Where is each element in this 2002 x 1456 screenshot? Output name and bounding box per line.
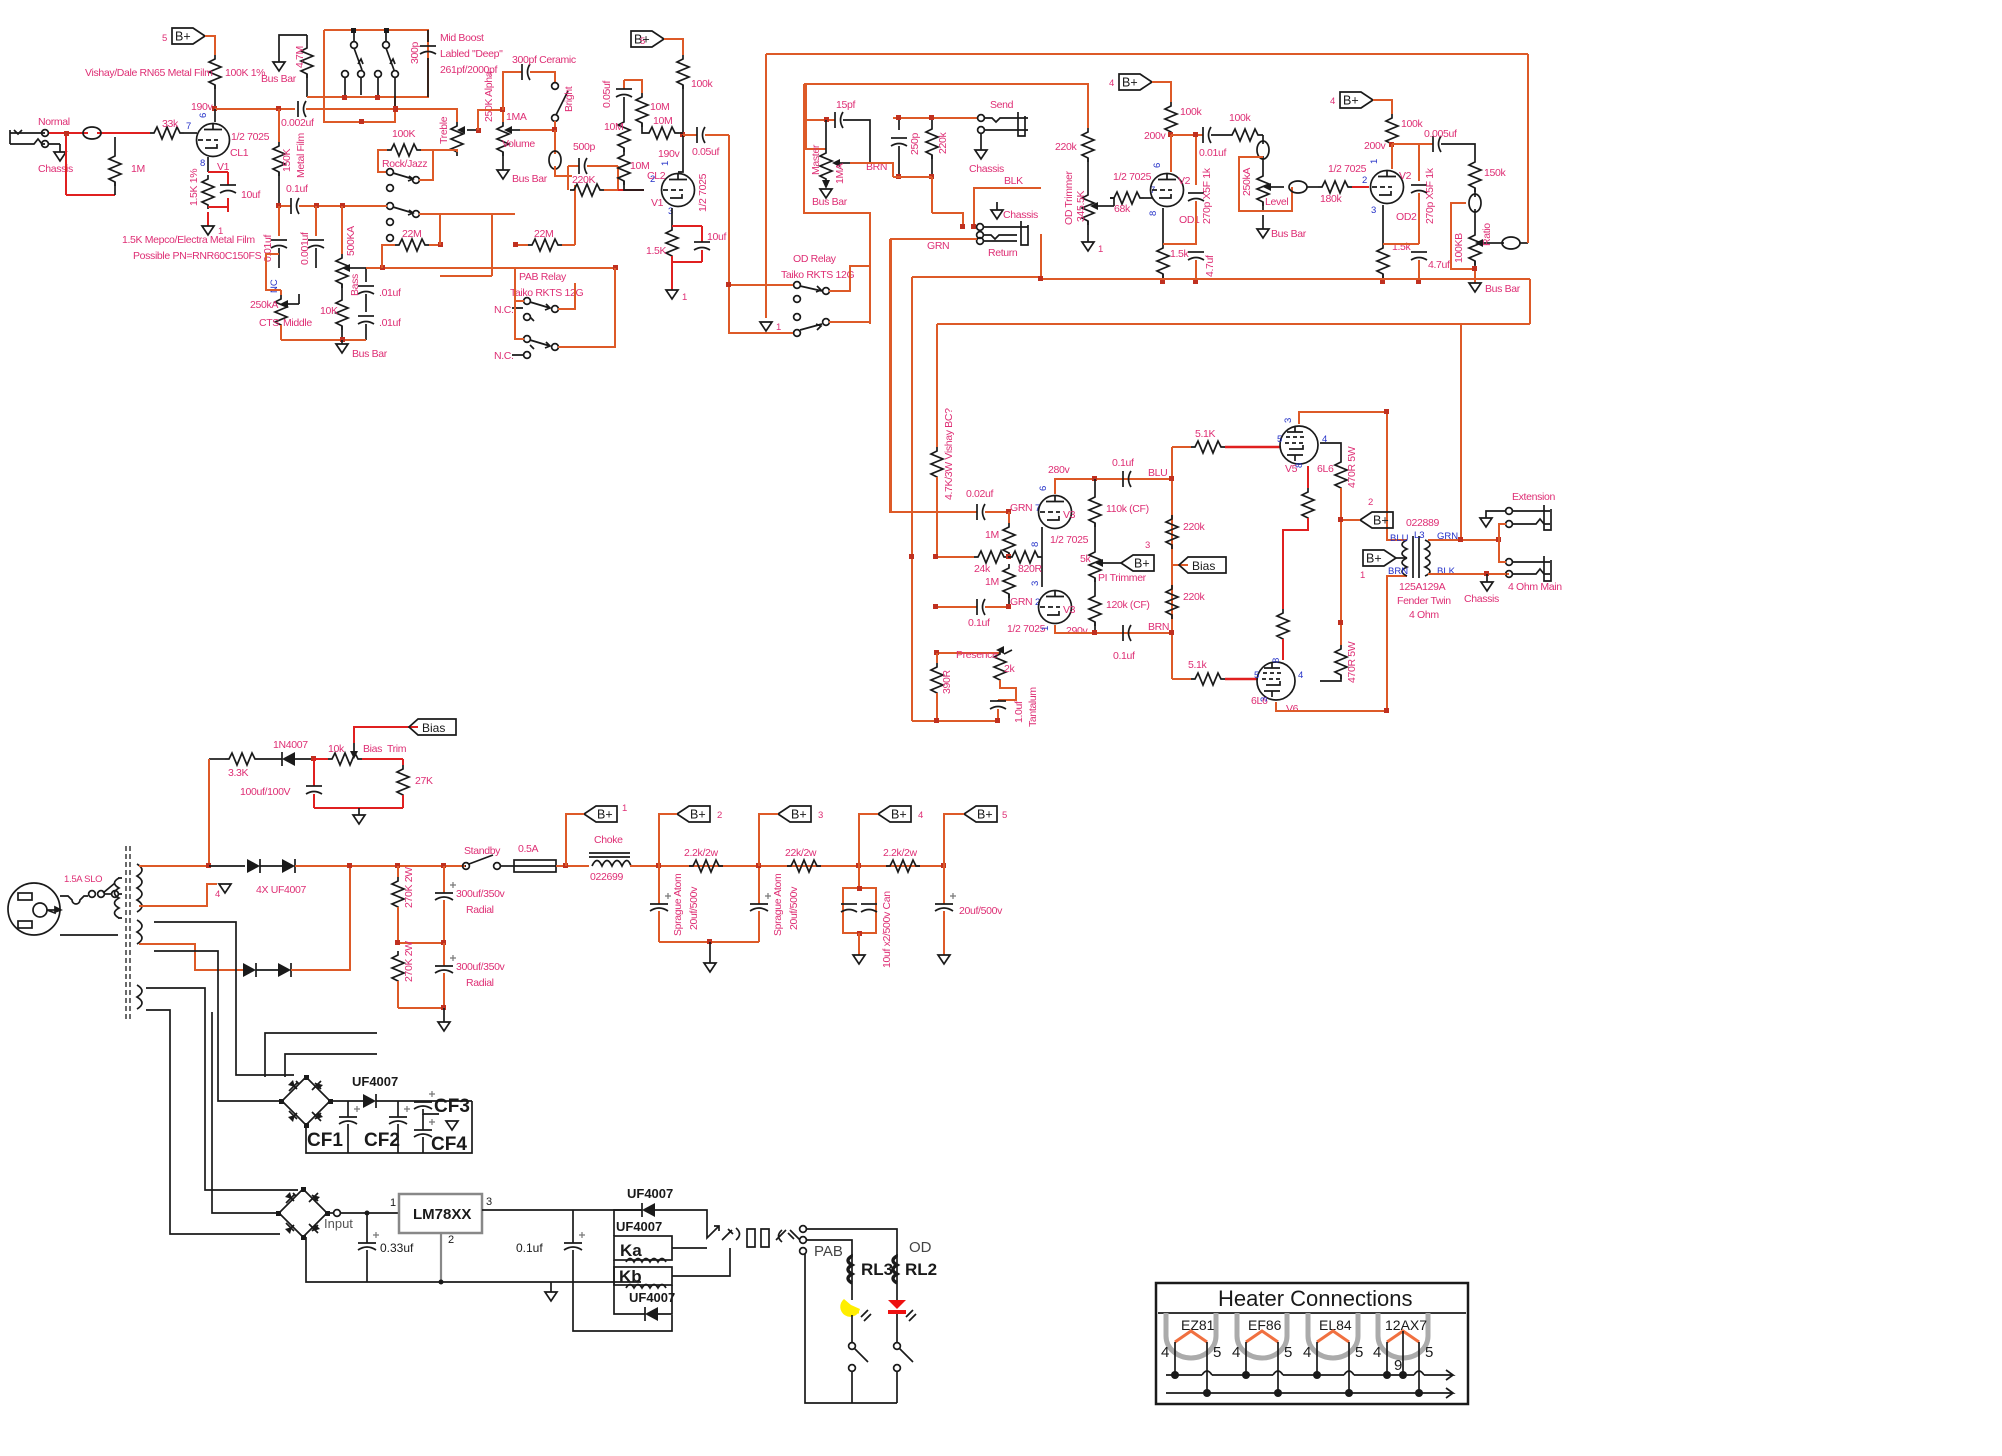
wire B+ to 100k	[664, 39, 683, 55]
pot VR Volume 1MA	[497, 110, 520, 170]
wire footswitch common rail	[805, 1254, 897, 1403]
LED red OD	[888, 1283, 916, 1342]
junction presence row	[934, 650, 939, 655]
ground OD trimmer	[1082, 242, 1094, 251]
svg-text:4.7uf: 4.7uf	[1428, 259, 1450, 271]
junction y282 rail	[1038, 276, 1043, 281]
junction CL2 plate node	[680, 132, 685, 137]
wire 0.02uf feed from GRN	[890, 239, 892, 512]
svg-text:1: 1	[1369, 159, 1380, 164]
wire OD relay pole wires	[729, 285, 793, 333]
junction send row	[896, 115, 901, 120]
svg-text:0.005uf: 0.005uf	[1424, 128, 1457, 140]
svg-text:300pf Ceramic: 300pf Ceramic	[512, 54, 576, 66]
svg-text:2.2k/2w: 2.2k/2w	[883, 847, 918, 859]
svg-text:1: 1	[1360, 570, 1365, 581]
svg-text:820R: 820R	[1018, 563, 1042, 575]
pot VR PI Trimmer 5k	[1089, 548, 1119, 582]
cap C 0.1uf BLU	[1123, 471, 1172, 487]
wire rock/jazz lower pole row (mid signal)	[279, 205, 291, 207]
resistor R 1.5K 1% cathode	[202, 175, 214, 209]
wire send bottom row	[893, 177, 932, 213]
resistor R 2.2k/2w a	[689, 860, 723, 872]
wire heater winding b to bridge1	[154, 951, 282, 1101]
wire OD1 cathode loop	[1163, 244, 1196, 245]
svg-text:CF4: CF4	[431, 1134, 467, 1155]
junction OD2 bottom	[1380, 279, 1385, 284]
svg-text:1M: 1M	[985, 576, 999, 588]
pot VR Ratio 100KB	[1469, 231, 1496, 269]
cap C .01uf bass lower	[358, 316, 374, 340]
svg-text:8: 8	[1148, 211, 1159, 216]
svg-text:UF4007: UF4007	[616, 1219, 662, 1234]
wire 22M B right to OD send net	[574, 185, 576, 245]
junction HV bias tap	[206, 863, 211, 868]
wire B+3	[759, 814, 778, 866]
wire HV top to diodes	[139, 865, 209, 867]
svg-text:4: 4	[1161, 1344, 1169, 1361]
bridge rectifier input bridge	[276, 1187, 330, 1240]
resistor R 22M anti-pop B	[515, 239, 575, 251]
cap C 0.1uf tone	[291, 198, 299, 214]
cap C 10uf CL2	[694, 226, 710, 262]
pins EF86	[1242, 1342, 1282, 1397]
junction GRN jack node	[1496, 537, 1501, 542]
fuse F 0.5A	[514, 860, 556, 872]
svg-text:5.1k: 5.1k	[1188, 659, 1208, 671]
cap C CF1	[339, 1101, 360, 1153]
junction BLU node	[1169, 476, 1174, 481]
cap C 4.7uf OD1	[1188, 252, 1204, 282]
svg-text:280v: 280v	[1048, 464, 1070, 476]
ground 20uf	[938, 955, 950, 964]
svg-text:0.1uf: 0.1uf	[1112, 457, 1134, 469]
svg-text:OD2: OD2	[1396, 211, 1417, 223]
wire presence bottom to 1.0uf	[998, 680, 1016, 700]
heater filament EF86	[1246, 1331, 1278, 1342]
svg-text:3: 3	[818, 810, 823, 821]
cap C 270p OD2	[1411, 144, 1427, 244]
ground bus bar V1 cathode	[202, 226, 214, 235]
junction B+4	[856, 863, 861, 868]
resistor R 150k	[1469, 158, 1481, 192]
wire bridge1 out	[330, 1100, 363, 1102]
svg-text:220K: 220K	[572, 174, 595, 186]
svg-text:Presence: Presence	[956, 649, 998, 661]
B+ flag 5 (V1 plate)	[172, 28, 205, 44]
svg-text:Vishay/Dale RN65 Metal Film: Vishay/Dale RN65 Metal Film	[85, 67, 213, 79]
tube socket EF86	[1237, 1313, 1287, 1358]
svg-text:4.7M: 4.7M	[294, 46, 306, 68]
svg-text:1: 1	[660, 161, 671, 166]
relay RL PAB switch 1	[512, 298, 558, 321]
resistor R 33k grid stopper	[150, 127, 184, 139]
svg-text:Bus Bar: Bus Bar	[512, 173, 548, 185]
junction plate node	[212, 106, 217, 111]
svg-text:345.5K: 345.5K	[1075, 190, 1087, 222]
svg-text:8: 8	[1271, 658, 1282, 663]
pot VR OD Trimmer 345.5K	[1082, 158, 1114, 242]
ground filter a	[704, 942, 716, 972]
junction bias node	[311, 756, 316, 761]
wire opto to RL3	[806, 1240, 852, 1257]
junction 24k/1M node	[1006, 554, 1011, 559]
svg-text:Mid Boost: Mid Boost	[440, 32, 484, 44]
svg-text:0.05uf: 0.05uf	[601, 80, 613, 108]
junction ratio bottom	[1472, 266, 1477, 271]
chassis ground return	[991, 202, 1003, 219]
svg-text:4: 4	[1232, 1344, 1240, 1361]
junction 515,245	[513, 242, 518, 247]
svg-text:BLU: BLU	[1390, 533, 1409, 544]
ground PSU chain	[438, 1008, 450, 1031]
resistor R V5 screen feed 470R 5W	[1320, 443, 1347, 645]
connector bubble ratio out	[1496, 237, 1528, 249]
junction 912,557	[909, 554, 914, 559]
wire master wiper row to send	[850, 163, 893, 177]
svg-text:1: 1	[622, 803, 627, 814]
wire HV center tap	[139, 884, 217, 906]
wire volume wiper to bright bottom	[520, 121, 555, 130]
wire B+2	[659, 814, 677, 866]
svg-text:Middle: Middle	[283, 317, 312, 329]
svg-text:100K: 100K	[392, 128, 415, 140]
svg-text:.01uf: .01uf	[379, 287, 401, 299]
cap C 0.1uf reg	[564, 1210, 585, 1282]
svg-text:100k: 100k	[691, 78, 713, 90]
wire OD2 plate to 0.005uf	[1392, 143, 1433, 145]
junction 382,268	[380, 265, 385, 270]
svg-text:BRN: BRN	[1388, 566, 1408, 577]
svg-text:Possible PN=RNR60C150FS: Possible PN=RNR60C150FS	[133, 250, 262, 262]
svg-text:Extension: Extension	[1512, 491, 1555, 503]
svg-text:2: 2	[1368, 497, 1373, 508]
wire extension sleeve to GRN	[1499, 524, 1506, 540]
svg-text:68k: 68k	[1114, 203, 1131, 215]
junction 300uf top	[441, 863, 446, 868]
wire bias feed down to HV wire	[208, 759, 210, 868]
cap C 1.0uf Tantalum	[990, 700, 1006, 721]
svg-text:Input: Input	[324, 1216, 353, 1231]
wire PAB relay throw 2 to mid row	[558, 268, 615, 347]
svg-text:110k (CF): 110k (CF)	[1106, 503, 1149, 515]
relay coil box Ka	[614, 1236, 672, 1262]
svg-text:3: 3	[1371, 205, 1376, 216]
svg-text:220k: 220k	[1183, 521, 1205, 533]
junction V3a grid	[1006, 509, 1011, 514]
level loop box	[1239, 157, 1292, 211]
cap C 0.01uf	[271, 206, 287, 268]
wire bottom common rail y282	[912, 277, 1530, 721]
wire 180k to OD2 grid	[1352, 186, 1369, 188]
svg-text:100k: 100k	[1180, 106, 1202, 118]
resistor R 10M a	[636, 93, 648, 127]
svg-text:0.1uf: 0.1uf	[968, 617, 990, 629]
wire B+5	[944, 814, 964, 866]
connector bubble ratio in	[1469, 188, 1481, 231]
jack J Send	[978, 112, 1028, 136]
svg-text:LM78XX: LM78XX	[413, 1206, 471, 1223]
svg-text:6: 6	[1152, 163, 1163, 168]
wire fuse to choke	[556, 865, 589, 867]
wire 0.05uf down to OD relay	[728, 135, 730, 285]
junction 555,130	[552, 127, 557, 132]
diode D UF4007 d	[256, 866, 350, 977]
resistor R 150K metal film	[273, 109, 285, 206]
junction 936,607	[933, 604, 938, 609]
resistor R 270K 2W lower	[392, 951, 404, 1008]
svg-text:150K: 150K	[281, 149, 293, 172]
junction 936,557	[933, 554, 938, 559]
svg-text:Choke: Choke	[594, 834, 623, 846]
svg-text:1/2 7025: 1/2 7025	[1050, 534, 1089, 546]
svg-text:3: 3	[1259, 697, 1270, 702]
wire 33k to V1 grid	[184, 132, 197, 134]
svg-text:Bus Bar: Bus Bar	[812, 196, 848, 208]
heater filament EL84	[1317, 1331, 1349, 1342]
svg-text:300uf/350v: 300uf/350v	[456, 888, 506, 900]
ground bias	[353, 808, 365, 824]
svg-text:100uf/100V: 100uf/100V	[240, 786, 291, 798]
cap C 0.005uf	[1433, 136, 1475, 158]
bridge rectifier CF bridge	[279, 1075, 333, 1128]
svg-text:6: 6	[198, 113, 209, 118]
svg-text:V6: V6	[1286, 703, 1299, 715]
wire heater AC stub upper	[265, 1033, 377, 1077]
wire BLK out	[1428, 573, 1509, 575]
resistor R 100K tone	[387, 144, 421, 156]
junction 270K top	[395, 863, 400, 868]
svg-text:5: 5	[1254, 670, 1259, 681]
junction	[1193, 132, 1198, 137]
cap C 0.001uf	[308, 206, 324, 268]
wire treble bottom to 100K	[421, 150, 457, 152]
wire B+5 to 100K plate resistor	[205, 36, 215, 55]
wire ratio out up rail	[1527, 242, 1529, 243]
diode D UF4007 e	[642, 1203, 707, 1230]
diode D UF4007 c	[243, 963, 256, 977]
wire HV bottom to diodes	[139, 944, 243, 970]
wire V3a plate up	[1055, 479, 1085, 494]
svg-text:180k: 180k	[1320, 193, 1342, 205]
pot VR Presence 2k	[937, 646, 1012, 684]
svg-text:Labled "Deep": Labled "Deep"	[440, 48, 503, 60]
pins 12AX7	[1383, 1331, 1423, 1397]
wire PAB relay common 1 to bass net	[515, 268, 524, 301]
svg-text:Sprague Atom: Sprague Atom	[772, 873, 784, 936]
cap C 0.002uf coupling	[298, 101, 306, 117]
ground CL2 cathode	[666, 290, 678, 299]
svg-text:Taiko RKTS 12G: Taiko RKTS 12G	[781, 269, 854, 281]
junction bottom	[441, 1005, 446, 1010]
wire B+4 to 100k	[1152, 82, 1171, 102]
svg-text:10M: 10M	[630, 160, 649, 172]
svg-text:V2: V2	[1399, 170, 1412, 182]
svg-text:4X UF4007: 4X UF4007	[256, 884, 306, 896]
svg-text:10k: 10k	[328, 743, 345, 755]
ground reg	[545, 1282, 557, 1301]
junction bass bottom	[340, 337, 345, 342]
svg-text:GRN: GRN	[927, 240, 949, 252]
junction at 395,109	[393, 106, 398, 111]
wire middle pot top loop	[266, 254, 281, 290]
resistor R 2.2k/2w b	[886, 860, 920, 872]
resistor R 270K 2W upper	[392, 866, 404, 943]
tube socket EZ81	[1166, 1313, 1216, 1358]
svg-text:OD Relay: OD Relay	[793, 253, 837, 265]
resistor R 22M anti-pop A	[382, 239, 440, 268]
wire 22M A to PAB switch net	[440, 214, 515, 276]
svg-text:5: 5	[1284, 1344, 1292, 1361]
junction 280v/110k	[1092, 476, 1097, 481]
svg-text:Treble: Treble	[438, 116, 450, 144]
cap C 10uf cathode bypass	[220, 172, 236, 212]
svg-text:100k: 100k	[1229, 112, 1251, 124]
resistor R 220k OD trimmer top	[1082, 128, 1094, 162]
svg-text:1.5A SLO: 1.5A SLO	[64, 874, 102, 885]
choke L 022699	[589, 853, 631, 866]
junction BLK	[971, 224, 976, 229]
chassis ground OT	[1481, 574, 1493, 591]
wire OD sw2 throw right	[804, 84, 870, 322]
bright cap C 0.05uf 10M chain	[616, 80, 632, 118]
svg-text:OD: OD	[909, 1239, 932, 1256]
svg-text:1: 1	[390, 1197, 396, 1209]
svg-text:1M: 1M	[985, 529, 999, 541]
cap C 0.01uf	[1203, 127, 1228, 143]
B+ flag 2	[1360, 512, 1393, 528]
switch SW Bright	[552, 83, 568, 122]
svg-text:Bias: Bias	[1192, 559, 1215, 573]
wire regulator return loop	[573, 1282, 672, 1331]
svg-text:190v: 190v	[191, 101, 213, 113]
cap C 300uf/350v upper	[435, 866, 456, 943]
wire output to diode net	[573, 1209, 642, 1211]
ground center tap	[219, 884, 231, 893]
svg-text:3: 3	[1283, 418, 1294, 423]
Bias flag out	[409, 719, 456, 735]
svg-text:27K: 27K	[415, 775, 433, 787]
junction 440,245	[438, 242, 443, 247]
wire BLK net	[932, 188, 1041, 227]
heater bus 1	[1166, 1370, 1453, 1380]
svg-text:BLU: BLU	[1148, 467, 1167, 479]
wire B+4	[859, 814, 878, 866]
B+ flag 1	[584, 806, 617, 822]
svg-text:GRN: GRN	[1010, 596, 1032, 608]
pins EL84	[1313, 1342, 1353, 1397]
wire rock/jazz lower throw to PAB net	[419, 213, 492, 215]
Bias flag	[1172, 557, 1226, 573]
wire main jack sleeve to BLK	[1503, 573, 1506, 575]
svg-text:Tantalum: Tantalum	[1027, 687, 1039, 727]
svg-text:Ka: Ka	[620, 1241, 642, 1260]
svg-text:22M: 22M	[534, 228, 553, 240]
diode D UF4007 a	[247, 859, 260, 873]
wire OD2 cathode loop	[1383, 243, 1419, 245]
cap C Sprague Atom 20uf b	[750, 866, 771, 942]
svg-text:1: 1	[1098, 244, 1103, 255]
svg-text:Standby: Standby	[464, 845, 501, 857]
resistor R 68k	[1110, 192, 1153, 206]
svg-text:290v: 290v	[1066, 625, 1088, 637]
relay RL OD switch 2	[794, 314, 830, 337]
tube V3 lower 1/2 7025	[1039, 591, 1072, 624]
svg-text:Sprague Atom: Sprague Atom	[672, 873, 684, 936]
svg-text:N.C.: N.C.	[494, 350, 514, 362]
wire plate node into tube	[678, 135, 683, 172]
ground ratio	[1469, 269, 1481, 292]
svg-text:Taiko RKTS 12G: Taiko RKTS 12G	[510, 287, 583, 299]
junction B+5	[941, 863, 946, 868]
loop box 500p/220K	[555, 166, 618, 190]
tube V1 CL1 1/2 7025	[197, 124, 230, 157]
svg-text:0.5A: 0.5A	[518, 843, 539, 855]
ground level	[1257, 215, 1269, 238]
opto output circles	[800, 1226, 807, 1255]
junction B+3	[756, 863, 761, 868]
svg-text:Return: Return	[988, 247, 1018, 259]
svg-text:2: 2	[717, 810, 722, 821]
svg-text:1/2 7025: 1/2 7025	[697, 173, 709, 212]
svg-text:4.7uf: 4.7uf	[1204, 255, 1216, 277]
svg-text:Heater Connections: Heater Connections	[1218, 1286, 1412, 1311]
ground bus bar bass	[336, 340, 348, 353]
svg-text:Bus Bar: Bus Bar	[1271, 228, 1307, 240]
svg-text:5: 5	[1002, 810, 1007, 821]
wire main jack tip	[1499, 540, 1506, 562]
can cap C 10uf x2/500v	[841, 866, 877, 955]
resistor R 1.5k OD2 cathode	[1377, 205, 1389, 282]
svg-text:10M: 10M	[650, 101, 669, 113]
wire PAB relay common 2	[515, 276, 524, 339]
transformer low winding	[137, 985, 142, 1009]
pot VR 250kA CTS Middle	[275, 290, 299, 340]
cap C 300uf/350v lower	[435, 943, 456, 1008]
svg-text:10K: 10K	[320, 305, 338, 317]
ground extension	[1480, 511, 1506, 527]
tube V1 CL2 1/2 7025	[662, 174, 695, 207]
svg-text:33k: 33k	[162, 118, 179, 130]
ground bus bar near 4.7M	[273, 35, 307, 71]
cap C 4.7uf OD2	[1411, 252, 1427, 282]
Mid Boost relay box	[307, 30, 428, 122]
svg-text:22k/2w: 22k/2w	[785, 847, 817, 859]
resistor R 220k upper	[1166, 515, 1178, 549]
svg-text:2k: 2k	[1004, 663, 1015, 675]
svg-text:20uf/500v: 20uf/500v	[788, 886, 800, 930]
transformer T power core	[126, 846, 130, 1021]
junction OD relay in	[726, 282, 731, 287]
junction V3b grid	[1006, 604, 1011, 609]
svg-text:250p: 250p	[909, 133, 921, 155]
tube V5 6L6	[1280, 426, 1318, 464]
resistor R 4.7M	[301, 35, 313, 97]
wire NFB vertical	[1460, 324, 1462, 540]
resistor R 1.5k OD1 cathode	[1157, 208, 1169, 282]
wire OD1 plate node	[1170, 135, 1172, 172]
wire heater AC stub lower	[285, 1054, 377, 1077]
cap C 250p	[891, 118, 907, 177]
junction BRN node	[1169, 630, 1174, 635]
svg-text:PAB Relay: PAB Relay	[519, 271, 567, 283]
svg-text:UF4007: UF4007	[629, 1290, 675, 1305]
wire B+3 to trimmer	[1119, 562, 1121, 564]
wire low winding to bridge2 top	[146, 988, 298, 1190]
svg-text:4 Ohm: 4 Ohm	[1409, 609, 1439, 621]
transformer bias/heater winding	[137, 920, 142, 944]
switch SW mid-boost section B	[375, 30, 399, 109]
